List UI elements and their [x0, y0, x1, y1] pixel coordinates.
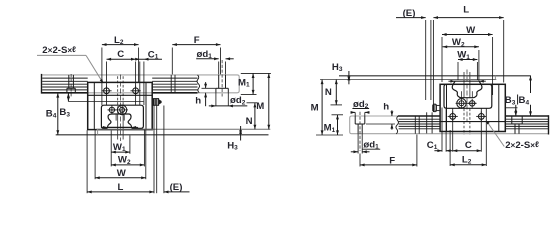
dimension F: [172, 35, 220, 75]
rail break line: [197, 75, 200, 93]
dimension L: [87, 106, 154, 194]
tapped hole 2 (right fig): [476, 111, 486, 121]
svg-text:L: L: [118, 182, 124, 193]
svg-text:N: N: [246, 116, 253, 127]
label 2x2-Sxl with leader: [37, 45, 103, 84]
dimension W1 (right fig): [457, 50, 477, 80]
dimension W1: [111, 131, 130, 167]
dimension W2: [111, 130, 144, 167]
block front view (outline): [101, 105, 143, 128]
grease hole front view (right fig): [468, 99, 477, 108]
table corner step (phantom, right fig): [494, 76, 496, 80]
dimension W: [95, 130, 146, 180]
svg-text:C: C: [117, 49, 124, 60]
tapped hole 2 (2x2-Sxl): [131, 86, 141, 96]
dimension (E): [164, 182, 190, 193]
rail groove lines right of block: [152, 78, 197, 90]
table corner step (phantom): [97, 129, 99, 135]
dimension W2 (right fig): [443, 37, 479, 80]
svg-text:W: W: [117, 168, 127, 179]
dimension (E) (right fig): [396, 8, 426, 19]
svg-text:M: M: [311, 103, 319, 114]
dimension od1: [196, 49, 234, 74]
block end plate line left: [93, 82, 95, 129]
svg-text:W: W: [466, 25, 476, 36]
grease hole front view: [108, 106, 117, 115]
LM rail cross-section profile (right fig, inverted): [452, 81, 482, 98]
block front view (outline, right fig): [444, 84, 492, 108]
rail bolt hole 2 (counterbored from below): [216, 60, 228, 97]
dimension L2: [102, 35, 139, 105]
dimension L2 (right fig): [450, 109, 486, 167]
phantom bolt hole walls at F pitch (right fig): [415, 116, 419, 134]
LM rail left fig (outline, rounded right end): [42, 75, 240, 93]
dimension od2: [209, 93, 248, 108]
dimension W (right fig): [442, 25, 493, 95]
svg-text:2×2-S×ℓ: 2×2-S×ℓ: [505, 140, 539, 151]
block bottom contact line: [97, 128, 271, 130]
block inner transverse line: [88, 94, 153, 96]
LM rail cross-section profile: [108, 114, 132, 127]
rail bolt hole 1 (counterbored from below): [67, 74, 75, 97]
labels B3 B4 (right fig): [505, 95, 530, 107]
rail bolt hole 1 (right fig, counterbored from top): [355, 112, 365, 151]
block end plate line right (right fig): [498, 84, 500, 131]
rail bolt hole 2 (right fig): [512, 116, 522, 134]
svg-text:(E): (E): [170, 182, 183, 193]
dimension M1 (right fig): [324, 115, 343, 135]
rail end extension lines: [157, 106, 164, 194]
grease nipple boss front view (right fig): [456, 98, 476, 109]
block end plate line left (right fig): [446, 84, 448, 131]
dimension h (right fig): [366, 101, 395, 129]
dimension N (right fig): [325, 80, 342, 105]
dimension h: [195, 82, 215, 107]
mounting base line (right fig): [339, 75, 531, 77]
svg-text:L: L: [463, 4, 469, 15]
tapped hole 1 (2x2-Sxl): [101, 86, 111, 96]
nipple mounting hidden lines (right fig): [427, 112, 432, 133]
rail top edge segment b (right fig): [505, 115, 548, 117]
rail groove lines left of block (right fig): [399, 119, 441, 129]
dimension M (right fig): [311, 80, 343, 136]
W1 arrows at rail base: [101, 126, 138, 129]
dimension B3: [59, 93, 143, 118]
dimension C: [107, 49, 136, 105]
mounting base line: [56, 134, 269, 136]
svg-text:h: h: [195, 96, 201, 107]
svg-text:F: F: [194, 35, 200, 46]
rail end extension lines (right fig): [426, 20, 431, 100]
dimension C1 (right fig): [427, 108, 453, 153]
svg-text:N: N: [325, 87, 332, 98]
block inner transverse line (right fig): [440, 121, 505, 123]
LM rail right fig (outline, rounded left end): [350, 116, 549, 134]
phantom bolt hole walls at F pitch: [171, 75, 175, 93]
svg-text:C: C: [465, 140, 472, 151]
rail break line (right fig): [396, 116, 399, 134]
dimension H3: [227, 126, 242, 152]
dimension line B4 (right fig): [529, 76, 532, 116]
tapped hole 1 (right fig): [448, 111, 458, 121]
dimension M: [256, 73, 270, 129]
rail bolt hole front view (hidden lines): [116, 75, 124, 142]
svg-text:h: h: [383, 101, 389, 112]
block end plate line right: [145, 82, 147, 129]
dimension L (right fig): [433, 4, 503, 112]
rail bolt hole front view (hidden, right fig): [462, 70, 473, 135]
svg-text:F: F: [389, 155, 395, 166]
dimension F (right fig): [360, 135, 417, 167]
dimension M1: [238, 73, 271, 94]
dimension od2 (right fig): [351, 99, 370, 116]
grease nipple (side view, right fig): [433, 104, 440, 112]
rail bottom edge (left segment): [42, 92, 88, 94]
rail left cut end: [41, 74, 43, 94]
rail bottom edge (right segment): [152, 92, 197, 94]
rail groove lines left of block: [42, 78, 87, 90]
label 2x2-Sxl with leader (right fig): [486, 120, 539, 151]
rail right cut end (right fig): [548, 115, 550, 134]
dimension od1 (right fig): [351, 134, 380, 154]
block top contact line (right fig): [320, 79, 496, 81]
LM block left fig (outline): [88, 82, 153, 129]
svg-text:(E): (E): [403, 8, 416, 19]
dimension C (right fig): [453, 109, 482, 153]
rail groove lines right of block (right fig): [505, 119, 548, 129]
LM block right fig (outline): [440, 84, 505, 131]
grease nipple boss front view: [108, 105, 128, 116]
dimension B4: [46, 93, 59, 135]
dimension N: [246, 103, 258, 130]
dimension H3 (right fig): [332, 62, 350, 84]
grease nipple (side view): [152, 99, 161, 106]
W1 arrows at rail base (right fig): [448, 80, 485, 83]
svg-text:M: M: [256, 101, 264, 112]
dimension C1: [135, 49, 162, 105]
svg-text:2×2-S×ℓ: 2×2-S×ℓ: [42, 45, 76, 56]
dimension line B3 (right fig): [505, 105, 517, 116]
rail top edge segment a (right fig): [398, 115, 440, 117]
